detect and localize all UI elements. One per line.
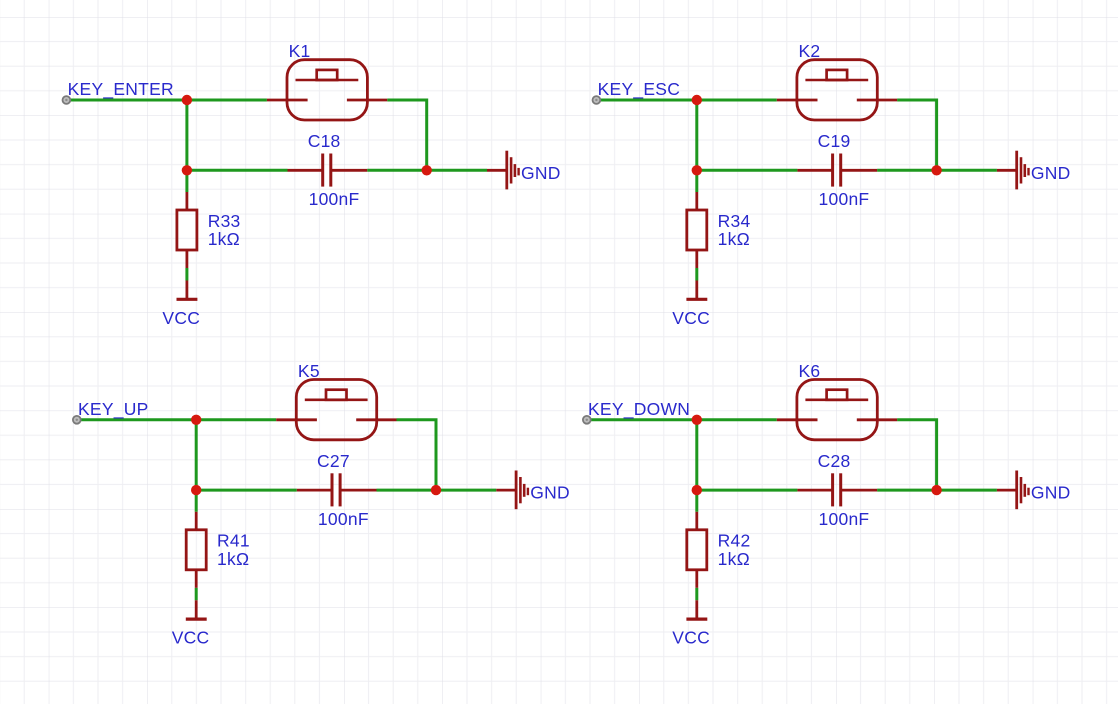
ground (997, 471, 1029, 510)
wire (697, 418, 777, 421)
port pin KEY_DOWN (583, 416, 591, 424)
capacitor C27 (297, 473, 377, 506)
svg-text:100nF: 100nF (318, 509, 369, 529)
svg-text:C28: C28 (818, 451, 851, 471)
resistor R33 (177, 192, 197, 268)
wire (695, 170, 698, 192)
wire KEY_UP to junction (80, 418, 196, 421)
wire (877, 169, 997, 172)
junction (191, 485, 201, 495)
power VCC (186, 600, 207, 619)
svg-text:VCC: VCC (162, 308, 200, 328)
power VCC (177, 281, 198, 300)
wire (196, 489, 297, 492)
svg-text:K5: K5 (298, 361, 320, 381)
svg-text:GND: GND (1031, 163, 1071, 183)
wire (695, 100, 698, 170)
port pin KEY_ESC (593, 96, 601, 104)
svg-text:100nF: 100nF (309, 189, 360, 209)
svg-text:C19: C19 (818, 131, 851, 151)
wire (195, 420, 198, 490)
wire KEY_ENTER to junction (70, 99, 187, 102)
junction (931, 485, 941, 495)
svg-text:R34: R34 (718, 211, 751, 231)
wire (695, 490, 698, 512)
capacitor C18 (288, 154, 368, 187)
power VCC (686, 281, 707, 300)
wire (196, 418, 276, 421)
svg-text:KEY_ESC: KEY_ESC (598, 79, 680, 100)
svg-text:1kΩ: 1kΩ (217, 549, 249, 569)
wire (877, 489, 997, 492)
svg-text:K1: K1 (289, 41, 311, 61)
capacitor C19 (797, 154, 877, 187)
wire (695, 420, 698, 490)
svg-text:KEY_ENTER: KEY_ENTER (68, 79, 174, 100)
wire (697, 169, 798, 172)
junction (431, 485, 441, 495)
svg-text:C18: C18 (308, 131, 341, 151)
junction (931, 165, 941, 175)
svg-text:1kΩ: 1kΩ (718, 229, 750, 249)
resistor R42 (687, 512, 707, 588)
ground (487, 151, 519, 190)
junction (182, 95, 192, 105)
wire (187, 169, 288, 172)
pushbutton K5 (276, 380, 396, 440)
power VCC (686, 600, 707, 619)
svg-text:1kΩ: 1kΩ (718, 549, 750, 569)
wire KEY_DOWN to junction (590, 418, 697, 421)
svg-text:VCC: VCC (172, 628, 210, 648)
junction (692, 165, 702, 175)
junction (182, 165, 192, 175)
ground (997, 151, 1029, 190)
wire (185, 268, 188, 281)
junction (422, 165, 432, 175)
wire (187, 99, 267, 102)
svg-text:C27: C27 (317, 451, 350, 471)
wire (185, 100, 188, 170)
resistor R41 (186, 512, 206, 588)
wire (195, 490, 198, 512)
svg-text:KEY_DOWN: KEY_DOWN (588, 399, 690, 420)
wire (697, 489, 798, 492)
ground (496, 471, 528, 510)
svg-text:GND: GND (521, 163, 561, 183)
svg-text:R33: R33 (208, 211, 241, 231)
wire (397, 420, 437, 490)
port pin KEY_UP (73, 416, 81, 424)
wire (367, 169, 487, 172)
wire (695, 268, 698, 281)
svg-text:GND: GND (530, 483, 570, 503)
capacitor C28 (797, 473, 877, 506)
wire (897, 100, 937, 170)
svg-text:VCC: VCC (672, 308, 710, 328)
wire (377, 489, 497, 492)
svg-text:R42: R42 (718, 531, 751, 551)
junction (692, 95, 702, 105)
svg-text:VCC: VCC (672, 628, 710, 648)
junction (692, 485, 702, 495)
wire (387, 100, 427, 170)
resistor R34 (687, 192, 707, 268)
wire (695, 588, 698, 601)
junction (191, 415, 201, 425)
svg-text:K6: K6 (799, 361, 821, 381)
junction (692, 415, 702, 425)
wire (185, 170, 188, 192)
wire (697, 99, 777, 102)
wire (897, 420, 937, 490)
svg-text:K2: K2 (799, 41, 821, 61)
port pin KEY_ENTER (63, 96, 71, 104)
svg-text:R41: R41 (217, 531, 250, 551)
wire KEY_ESC to junction (600, 99, 697, 102)
pushbutton K1 (267, 60, 387, 120)
pushbutton K2 (777, 60, 897, 120)
svg-text:GND: GND (1031, 483, 1071, 503)
pushbutton K6 (777, 380, 897, 440)
svg-text:KEY_UP: KEY_UP (78, 399, 149, 420)
svg-text:100nF: 100nF (819, 189, 870, 209)
wire (195, 588, 198, 601)
svg-text:100nF: 100nF (819, 509, 870, 529)
svg-text:1kΩ: 1kΩ (208, 229, 240, 249)
